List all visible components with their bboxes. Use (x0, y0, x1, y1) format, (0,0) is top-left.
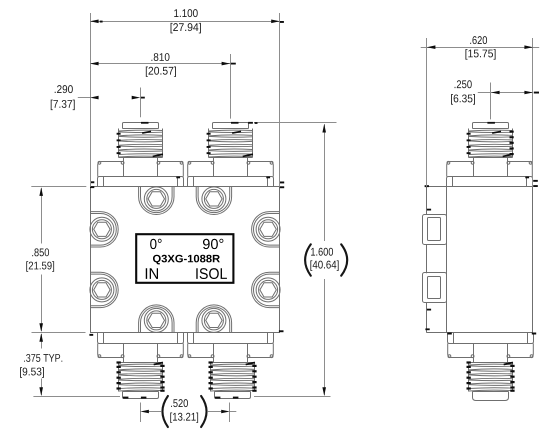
SMA connector J1 top-left (IN port) (98, 122, 184, 187)
screw hole top-right (196, 187, 231, 215)
datum marks front body corners (89, 181, 284, 335)
label plate Q3XG-1088R (136, 234, 233, 283)
dimension (1.600) [40.64] overall height (254, 122, 347, 396)
side view body outline (427, 187, 534, 333)
dimension .810 [20.57] port spacing (90, 53, 236, 119)
dimension (.520) [13.21] port spacing bottom (140, 396, 236, 427)
SMA connector J3 bottom-left (98, 333, 184, 399)
dimension .850 [21.59] body height (26, 187, 86, 333)
screw hole top-left (139, 187, 174, 215)
SMA connector J4 bottom-right (188, 333, 274, 399)
dimension .290 [7.37] port offset (51, 85, 145, 117)
mounting tab upper (side view) (423, 215, 447, 245)
screw hole left-upper (90, 212, 118, 247)
SMA connector top (side view) (447, 122, 533, 187)
dimension .250 [6.35] connector offset side (451, 80, 539, 119)
front view body outline (91, 187, 280, 333)
screw hole bottom-right (196, 305, 231, 333)
screw hole right-upper (252, 212, 281, 247)
mounting tab lower (side view) (423, 273, 447, 303)
dimension 1.100 [27.94] overall width (90, 9, 284, 187)
side top connector extra thread marks (510, 131, 514, 156)
SMA connector J2 top-right (188, 122, 274, 187)
SMA connector bottom (side view) (448, 333, 534, 401)
screw hole left-lower (90, 272, 118, 307)
dimension .620 [15.75] side width (421, 36, 540, 187)
dimension .375 TYP. [9.53] connector height (20, 333, 120, 396)
datum marks side body (425, 180, 538, 335)
screw hole bottom-left (139, 305, 174, 333)
screw hole right-lower (252, 272, 281, 307)
